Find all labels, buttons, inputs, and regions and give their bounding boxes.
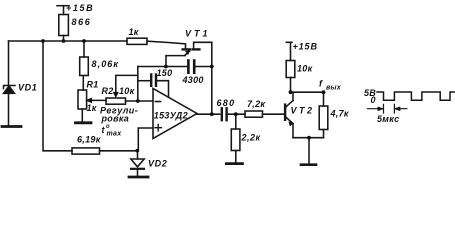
svg-text:7,2к: 7,2к [247, 99, 265, 109]
svg-text:VT2: VT2 [291, 106, 315, 116]
svg-text:max: max [107, 131, 123, 138]
svg-text:10к: 10к [119, 86, 135, 96]
svg-text:866: 866 [72, 17, 92, 27]
svg-text:4300: 4300 [182, 75, 204, 85]
svg-text:5мкс: 5мкс [377, 114, 399, 124]
svg-text:8,06к: 8,06к [92, 59, 120, 69]
svg-text:R1: R1 [87, 80, 99, 90]
svg-text:ровка: ровка [101, 114, 130, 124]
svg-text:VD1: VD1 [18, 83, 37, 93]
svg-text:4,7к: 4,7к [330, 109, 349, 119]
svg-text:VD2: VD2 [148, 159, 167, 169]
svg-text:150: 150 [157, 68, 173, 78]
svg-text:1к: 1к [87, 103, 97, 113]
svg-text:R2: R2 [102, 86, 114, 96]
svg-text:+15В: +15В [293, 42, 318, 52]
svg-text:6,19к: 6,19к [77, 135, 101, 145]
svg-text:10к: 10к [297, 64, 313, 74]
svg-text:вых: вых [326, 85, 342, 92]
svg-text:о: о [106, 124, 110, 130]
svg-text:0: 0 [371, 95, 376, 105]
svg-text:+15В: +15В [66, 3, 94, 13]
svg-text:1к: 1к [129, 27, 139, 37]
svg-text:VT1: VT1 [185, 29, 211, 39]
svg-text:2,2к: 2,2к [241, 133, 261, 143]
svg-text:153УД2: 153УД2 [154, 110, 188, 120]
svg-text:680: 680 [217, 98, 236, 108]
